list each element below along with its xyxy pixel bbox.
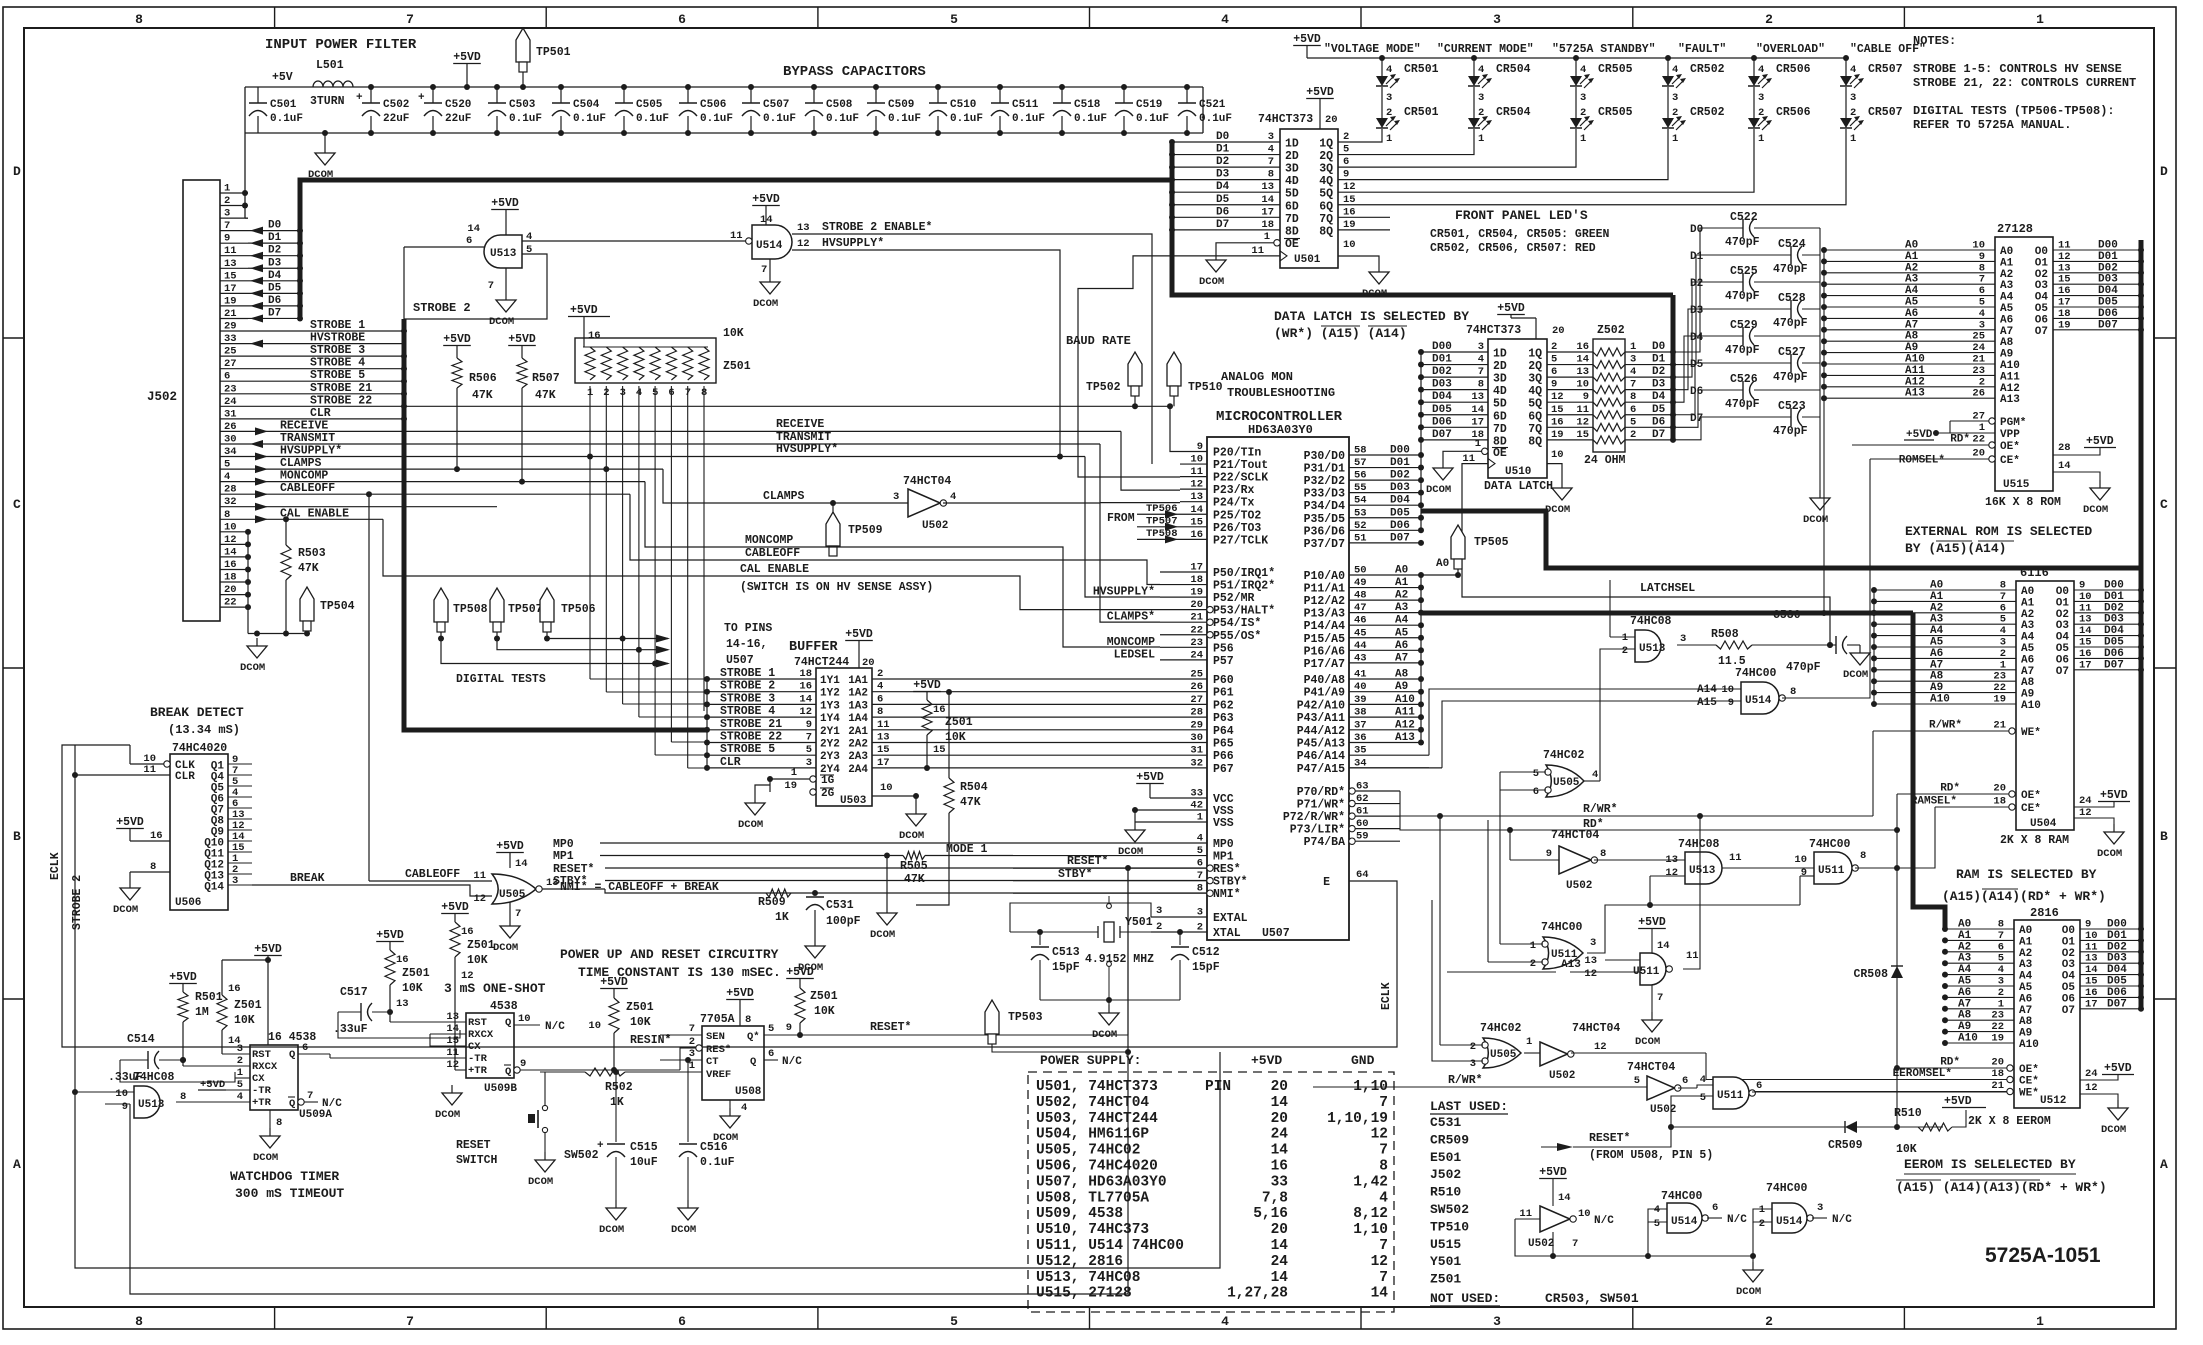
svg-text:33: 33 bbox=[1190, 788, 1203, 800]
svg-text:24: 24 bbox=[2085, 1068, 2098, 1080]
LED CR505 bbox=[1573, 55, 1579, 61]
svg-text:19: 19 bbox=[1551, 429, 1564, 441]
svg-text:1,10: 1,10 bbox=[1353, 1079, 1388, 1095]
testpoint TP504 bbox=[300, 587, 314, 621]
svg-text:A: A bbox=[2160, 1157, 2168, 1172]
svg-text:D07: D07 bbox=[1390, 532, 1410, 544]
svg-text:14: 14 bbox=[1471, 404, 1484, 416]
svg-text:Z501: Z501 bbox=[723, 360, 751, 373]
svg-text:64: 64 bbox=[1356, 869, 1369, 881]
svg-text:17: 17 bbox=[2058, 297, 2071, 309]
svg-text:CR507: CR507 bbox=[1868, 63, 1903, 76]
svg-text:20: 20 bbox=[1972, 448, 1985, 460]
svg-text:74HC00: 74HC00 bbox=[1661, 1190, 1703, 1203]
svg-text:N/C: N/C bbox=[1832, 1214, 1852, 1226]
svg-text:P46/A14: P46/A14 bbox=[1297, 750, 1345, 763]
capacitor C521 bbox=[1186, 87, 1188, 103]
wire Z501 pin drop bbox=[654, 386, 656, 755]
svg-text:7: 7 bbox=[307, 1090, 313, 1102]
wire TRANSMIT to P24 bbox=[1100, 444, 1180, 503]
svg-text:+5VD: +5VD bbox=[845, 628, 873, 641]
svg-text:U511: U511 bbox=[1818, 865, 1845, 877]
wire ROM address column bbox=[1823, 250, 1825, 613]
svg-text:13: 13 bbox=[2085, 953, 2098, 965]
svg-text:U515: U515 bbox=[1430, 1237, 1461, 1252]
svg-text:(FROM U508, PIN 5): (FROM U508, PIN 5) bbox=[1589, 1149, 1713, 1162]
svg-text:C518: C518 bbox=[1074, 99, 1101, 111]
svg-text:6: 6 bbox=[877, 693, 883, 705]
svg-text:3: 3 bbox=[1979, 319, 1985, 331]
ground DCOM U503 G bbox=[754, 795, 756, 803]
svg-text:8: 8 bbox=[745, 1014, 751, 1026]
svg-text:10K: 10K bbox=[467, 954, 488, 967]
svg-text:0.1uF: 0.1uF bbox=[270, 113, 303, 125]
svg-text:D07: D07 bbox=[2104, 659, 2124, 671]
svg-text:1: 1 bbox=[1530, 940, 1536, 952]
svg-text:R510: R510 bbox=[1894, 1107, 1922, 1120]
svg-text:C521: C521 bbox=[1199, 99, 1226, 111]
svg-text:2D: 2D bbox=[1285, 150, 1299, 163]
U504 pin 22 A9 bbox=[1874, 692, 2016, 694]
U515 pin 9 A1 bbox=[1824, 260, 1995, 262]
svg-text:+5VD: +5VD bbox=[600, 976, 628, 989]
svg-text:74HCT04: 74HCT04 bbox=[1572, 1022, 1620, 1035]
svg-text:19: 19 bbox=[2058, 319, 2071, 331]
svg-text:VREF: VREF bbox=[706, 1069, 731, 1081]
U506 pin 10 CLK bbox=[164, 761, 170, 767]
svg-text:-TR: -TR bbox=[252, 1085, 272, 1097]
svg-text:6D: 6D bbox=[1285, 200, 1299, 213]
resistor R509 bbox=[766, 889, 791, 897]
svg-text:A9: A9 bbox=[1958, 1021, 1971, 1033]
svg-text:CLR: CLR bbox=[175, 771, 195, 783]
svg-text:D01: D01 bbox=[2104, 591, 2124, 603]
svg-text:7Q: 7Q bbox=[1319, 213, 1333, 226]
svg-text:ECLK: ECLK bbox=[1380, 982, 1393, 1010]
svg-text:(A15) (A14)(A13)(RD* + WR*): (A15) (A14)(A13)(RD* + WR*) bbox=[1896, 1180, 2107, 1195]
wire HVSTROBE run bbox=[248, 343, 404, 345]
svg-text:U507, HD63A03Y0: U507, HD63A03Y0 bbox=[1036, 1174, 1167, 1190]
svg-text:CT: CT bbox=[706, 1056, 719, 1068]
U515 pin 25 A8 bbox=[1824, 340, 1995, 342]
svg-text:A3: A3 bbox=[2019, 959, 2033, 971]
svg-text:2: 2 bbox=[237, 1055, 243, 1067]
svg-text:10: 10 bbox=[1576, 379, 1589, 391]
svg-text:Q*: Q* bbox=[747, 1031, 760, 1043]
LED CR507 bbox=[1843, 55, 1849, 61]
svg-text:P47/A15: P47/A15 bbox=[1297, 763, 1345, 776]
svg-text:0.1uF: 0.1uF bbox=[763, 113, 796, 125]
svg-text:RST: RST bbox=[468, 1017, 487, 1029]
svg-text:23: 23 bbox=[1991, 1010, 2004, 1022]
svg-text:4: 4 bbox=[741, 1102, 747, 1114]
svg-text:16: 16 bbox=[1343, 206, 1356, 218]
svg-text:A6: A6 bbox=[1905, 308, 1918, 320]
svg-text:+5VD: +5VD bbox=[254, 943, 282, 956]
svg-text:C510: C510 bbox=[950, 99, 976, 111]
svg-text:16: 16 bbox=[396, 954, 409, 966]
svg-text:12: 12 bbox=[1584, 968, 1597, 980]
svg-text:5: 5 bbox=[1634, 1075, 1640, 1087]
svg-text:14: 14 bbox=[467, 223, 480, 235]
wire U508 sen line bbox=[659, 1034, 661, 1036]
svg-text:10uF: 10uF bbox=[630, 1156, 658, 1169]
svg-text:10: 10 bbox=[1190, 454, 1203, 466]
svg-text:OE*: OE* bbox=[2019, 1064, 2039, 1076]
svg-text:4: 4 bbox=[1758, 64, 1764, 76]
wire D7 bbox=[248, 317, 300, 319]
wire D1 bbox=[248, 242, 300, 244]
svg-text:0.1uF: 0.1uF bbox=[573, 113, 606, 125]
svg-text:U505: U505 bbox=[1553, 777, 1580, 789]
svg-text:C502: C502 bbox=[383, 99, 409, 111]
svg-text:C531: C531 bbox=[1430, 1115, 1461, 1130]
svg-text:A7: A7 bbox=[2000, 326, 2013, 338]
svg-text:O5: O5 bbox=[2056, 643, 2070, 655]
svg-text:A0: A0 bbox=[2000, 246, 2013, 258]
svg-text:4: 4 bbox=[950, 491, 956, 503]
svg-text:20: 20 bbox=[1552, 325, 1565, 337]
svg-text:CR502, CR506, CR507: RED: CR502, CR506, CR507: RED bbox=[1430, 242, 1596, 255]
svg-text:A13: A13 bbox=[1395, 732, 1415, 744]
svg-text:CR506: CR506 bbox=[1776, 106, 1811, 119]
svg-text:RAMSEL*: RAMSEL* bbox=[1911, 796, 1957, 808]
svg-text:D02: D02 bbox=[1390, 470, 1410, 482]
svg-text:12: 12 bbox=[797, 238, 810, 250]
U512 pin 6 A2 bbox=[1945, 951, 2014, 953]
J502 pin 22 bbox=[220, 606, 248, 608]
svg-text:3: 3 bbox=[1630, 354, 1636, 366]
svg-text:STROBE 2: STROBE 2 bbox=[720, 680, 775, 693]
capacitor C511 bbox=[999, 87, 1001, 103]
U503 row STROBE 5 bbox=[707, 754, 816, 756]
svg-text:5D: 5D bbox=[1285, 188, 1299, 201]
counter U506 74HC4020 bbox=[170, 754, 228, 910]
svg-text:63: 63 bbox=[1356, 781, 1369, 793]
svg-text:3: 3 bbox=[1156, 905, 1162, 917]
svg-text:47K: 47K bbox=[535, 389, 556, 402]
U507 pin 50 P10/A0 wire A0 bbox=[1349, 574, 1421, 576]
wire TP506 arrow bbox=[1137, 513, 1180, 515]
svg-text:P15/A5: P15/A5 bbox=[1304, 633, 1346, 646]
svg-text:3: 3 bbox=[2000, 637, 2006, 649]
svg-text:6: 6 bbox=[1712, 1202, 1718, 1214]
svg-text:7: 7 bbox=[1379, 1270, 1388, 1286]
svg-text:18: 18 bbox=[1261, 219, 1274, 231]
J502 pin 17 bbox=[220, 292, 248, 294]
svg-text:A0: A0 bbox=[1958, 919, 1971, 931]
svg-text:11: 11 bbox=[1251, 245, 1264, 257]
svg-text:A0: A0 bbox=[1395, 565, 1408, 577]
svg-text:O6: O6 bbox=[2035, 314, 2048, 326]
U507 pin 18 P51/IRQ2* bbox=[1160, 584, 1207, 586]
svg-text:P62: P62 bbox=[1213, 699, 1234, 712]
svg-text:TP504: TP504 bbox=[320, 600, 355, 613]
svg-text:P42/A10: P42/A10 bbox=[1297, 699, 1345, 712]
wire STROBE 3 run bbox=[248, 355, 404, 357]
U515 pin 6 A4 bbox=[1824, 295, 1995, 297]
svg-text:P70/RD*: P70/RD* bbox=[1297, 786, 1345, 799]
J502 pin 16 bbox=[220, 569, 248, 571]
svg-text:CR505: CR505 bbox=[1598, 63, 1633, 76]
svg-text:DCOM: DCOM bbox=[253, 1152, 278, 1164]
svg-text:9: 9 bbox=[2079, 580, 2085, 592]
svg-text:CE*: CE* bbox=[2019, 1076, 2039, 1088]
svg-text:12: 12 bbox=[2058, 251, 2071, 263]
svg-text:C504: C504 bbox=[573, 99, 600, 111]
svg-text:R509: R509 bbox=[758, 896, 786, 909]
svg-text:CABLEOFF: CABLEOFF bbox=[280, 482, 335, 495]
svg-text:A0: A0 bbox=[2019, 925, 2032, 937]
svg-text:Z501: Z501 bbox=[402, 967, 430, 980]
U512 pin 15 O5 wire D05 bbox=[2080, 985, 2141, 987]
U512 pin 1 A7 bbox=[1945, 1008, 2014, 1010]
ground DCOM U515 bbox=[2099, 480, 2101, 488]
U510 pin 12 5Q wire to Z502 bbox=[1547, 401, 1593, 403]
U504 pin 2 A6 bbox=[1874, 657, 2016, 659]
svg-text:U504, HM6116P: U504, HM6116P bbox=[1036, 1127, 1149, 1143]
wire D1 riser bbox=[1673, 255, 1705, 365]
svg-text:A9: A9 bbox=[2000, 349, 2013, 361]
U507 pin 48 P12/A2 wire A2 bbox=[1349, 599, 1421, 601]
capacitor C506 bbox=[687, 87, 689, 103]
U504 pin 23 A8 bbox=[1874, 680, 2016, 682]
U515 pin 10 A0 bbox=[1824, 249, 1995, 251]
U507 pin 53 P35/D5 wire D05 bbox=[1349, 517, 1421, 519]
wire RECEIVE to P23 bbox=[1121, 431, 1180, 490]
svg-text:16: 16 bbox=[1576, 341, 1589, 353]
latch U510 74HCT373 bbox=[1488, 339, 1547, 478]
svg-text:A0: A0 bbox=[1436, 558, 1449, 570]
svg-text:D04: D04 bbox=[1390, 495, 1410, 507]
svg-text:CR506: CR506 bbox=[1776, 63, 1811, 76]
svg-text:C517: C517 bbox=[340, 986, 368, 999]
ground DCOM U503 pin10 bbox=[915, 806, 917, 814]
LED CR504 bbox=[1471, 55, 1477, 61]
svg-text:R507: R507 bbox=[532, 372, 560, 385]
svg-text:3: 3 bbox=[1470, 1058, 1476, 1070]
svg-text:C507: C507 bbox=[763, 99, 789, 111]
wire U513 pin4 to U514 pin11 bbox=[522, 240, 752, 242]
svg-text:1K: 1K bbox=[775, 911, 789, 924]
J502 pin 26 bbox=[220, 430, 248, 432]
svg-text:20: 20 bbox=[1271, 1079, 1288, 1095]
svg-text:A6: A6 bbox=[1958, 987, 1971, 999]
ground DCOM U508 bbox=[729, 1108, 731, 1116]
svg-text:5: 5 bbox=[237, 1079, 243, 1091]
svg-text:19: 19 bbox=[1991, 1033, 2004, 1045]
U507 pin 56 P32/D2 wire D02 bbox=[1349, 479, 1421, 481]
U515 pin 5 A5 bbox=[1824, 306, 1995, 308]
svg-text:MP1: MP1 bbox=[1213, 851, 1234, 864]
svg-text:A1: A1 bbox=[1930, 591, 1944, 603]
svg-text:+: + bbox=[597, 1140, 604, 1152]
svg-text:C501: C501 bbox=[270, 99, 297, 111]
svg-text:A9: A9 bbox=[2021, 689, 2034, 701]
svg-text:MP0: MP0 bbox=[1213, 838, 1234, 851]
svg-text:3: 3 bbox=[1817, 1202, 1823, 1214]
svg-text:TP503: TP503 bbox=[1008, 1011, 1043, 1024]
svg-text:C527: C527 bbox=[1778, 346, 1806, 359]
svg-text:P40/A8: P40/A8 bbox=[1304, 674, 1346, 687]
diode CR508 bbox=[1896, 794, 1898, 1127]
svg-text:10K: 10K bbox=[723, 327, 744, 340]
svg-text:P74/BA: P74/BA bbox=[1304, 836, 1346, 849]
svg-text:(WR*) (A15) (A14): (WR*) (A15) (A14) bbox=[1274, 326, 1407, 341]
svg-text:R510: R510 bbox=[1430, 1185, 1461, 1200]
resistor R503 bbox=[285, 519, 287, 545]
svg-text:A5: A5 bbox=[1930, 637, 1944, 649]
svg-text:A1: A1 bbox=[1905, 251, 1919, 263]
Z502 resistor 7 bbox=[1593, 423, 1625, 431]
Z502 resistor 4 bbox=[1593, 386, 1625, 394]
svg-text:27128: 27128 bbox=[1997, 222, 2033, 236]
wire D4 bbox=[248, 280, 300, 282]
svg-text:TP507: TP507 bbox=[508, 603, 543, 616]
svg-text:7: 7 bbox=[1379, 1238, 1388, 1254]
svg-text:P26/TO3: P26/TO3 bbox=[1213, 522, 1261, 535]
svg-text:15: 15 bbox=[224, 270, 237, 282]
svg-text:22uF: 22uF bbox=[445, 113, 471, 125]
svg-text:D4: D4 bbox=[1652, 391, 1666, 403]
svg-text:16: 16 bbox=[2085, 987, 2098, 999]
svg-text:10: 10 bbox=[2085, 930, 2098, 942]
svg-text:22: 22 bbox=[1190, 624, 1203, 636]
J502 pin 31 bbox=[220, 418, 248, 420]
svg-text:12: 12 bbox=[2079, 807, 2092, 819]
svg-text:P34/D4: P34/D4 bbox=[1304, 500, 1346, 513]
wire STROBE 5 run bbox=[248, 380, 404, 382]
J502 pin 1 bbox=[220, 192, 248, 194]
svg-text:+5VD: +5VD bbox=[913, 679, 941, 692]
svg-text:12: 12 bbox=[224, 534, 237, 546]
svg-text:50: 50 bbox=[1354, 565, 1367, 577]
svg-text:0.1uF: 0.1uF bbox=[1136, 113, 1169, 125]
U512 pin 14 O4 wire D04 bbox=[2080, 974, 2141, 976]
svg-text:Z501: Z501 bbox=[810, 990, 838, 1003]
svg-text:TO PINS: TO PINS bbox=[724, 622, 772, 635]
svg-text:A10: A10 bbox=[2019, 1039, 2039, 1051]
svg-text:11: 11 bbox=[2058, 240, 2071, 252]
svg-text:DCOM: DCOM bbox=[1736, 1286, 1761, 1298]
U504 pin 19 A10 bbox=[1874, 703, 2016, 705]
svg-text:A4: A4 bbox=[1958, 964, 1972, 976]
svg-text:RXCX: RXCX bbox=[468, 1029, 494, 1041]
wire STROBE 22 run bbox=[248, 405, 404, 407]
U501 pin 8 4D bbox=[1172, 179, 1280, 181]
U515 pin 19 O7 wire D07 bbox=[2053, 329, 2141, 331]
svg-text:(13.34 mS): (13.34 mS) bbox=[168, 723, 240, 737]
svg-text:A8: A8 bbox=[1905, 331, 1919, 343]
svg-text:17: 17 bbox=[224, 283, 237, 295]
svg-text:P10/A0: P10/A0 bbox=[1304, 570, 1346, 583]
svg-text:A8: A8 bbox=[2000, 337, 2014, 349]
svg-text:10: 10 bbox=[1972, 240, 1985, 252]
U515 pin 13 O2 wire D02 bbox=[2053, 272, 2141, 274]
svg-text:22: 22 bbox=[1991, 1021, 2004, 1033]
wire STROBE 1 run bbox=[248, 330, 404, 332]
U507 pin 1 VSS bbox=[1135, 821, 1207, 823]
svg-text:5,16: 5,16 bbox=[1253, 1206, 1288, 1222]
U510 pin 5 2Q wire to Z502 bbox=[1547, 364, 1593, 366]
svg-text:2: 2 bbox=[1530, 958, 1536, 970]
svg-text:10: 10 bbox=[1343, 239, 1356, 251]
svg-text:P56: P56 bbox=[1213, 642, 1234, 655]
svg-text:12: 12 bbox=[2085, 1082, 2098, 1094]
svg-text:470pF: 470pF bbox=[1725, 398, 1760, 411]
svg-text:C524: C524 bbox=[1778, 238, 1806, 251]
svg-text:P65: P65 bbox=[1213, 738, 1234, 751]
svg-text:12: 12 bbox=[446, 1059, 459, 1071]
ground DCOM U504 bbox=[2113, 824, 2115, 832]
svg-text:D7: D7 bbox=[1652, 429, 1665, 441]
svg-text:U512: U512 bbox=[2040, 1095, 2066, 1107]
svg-text:6: 6 bbox=[1533, 786, 1539, 798]
svg-text:U511: U511 bbox=[1717, 1090, 1744, 1102]
svg-text:O7: O7 bbox=[2056, 666, 2069, 678]
svg-text:8: 8 bbox=[135, 1314, 143, 1329]
svg-text:2: 2 bbox=[689, 1036, 695, 1048]
resistor network Z501 top bbox=[575, 338, 716, 383]
svg-text:3: 3 bbox=[893, 491, 899, 503]
svg-text:D05: D05 bbox=[2104, 637, 2124, 649]
svg-text:PIN: PIN bbox=[1205, 1079, 1231, 1095]
J502 pin 30 bbox=[220, 443, 248, 445]
svg-text:P20/TIn: P20/TIn bbox=[1213, 447, 1261, 460]
svg-text:CABLEOFF: CABLEOFF bbox=[405, 868, 460, 881]
U507 pin 54 P34/D4 wire D04 bbox=[1349, 504, 1421, 506]
svg-text:A11: A11 bbox=[2000, 371, 2020, 383]
J502 pin 11 bbox=[220, 255, 248, 257]
svg-text:74HC02: 74HC02 bbox=[1480, 1022, 1522, 1035]
wire Z501 pin drop bbox=[670, 386, 672, 742]
svg-text:0.1uF: 0.1uF bbox=[1074, 113, 1107, 125]
Z502 resistor 1 bbox=[1593, 348, 1625, 356]
svg-text:25: 25 bbox=[1972, 331, 1985, 343]
svg-text:SW502: SW502 bbox=[564, 1149, 599, 1162]
svg-text:D02: D02 bbox=[2107, 941, 2127, 953]
svg-text:P16/A6: P16/A6 bbox=[1304, 645, 1346, 658]
U515 pin 2 A12 bbox=[1824, 386, 1995, 388]
svg-text:4: 4 bbox=[1580, 64, 1586, 76]
svg-text:7: 7 bbox=[1379, 1095, 1388, 1111]
svg-text:TP510: TP510 bbox=[1430, 1219, 1469, 1234]
svg-text:1A1: 1A1 bbox=[848, 675, 868, 687]
U503 row STROBE 3 bbox=[707, 703, 816, 705]
svg-text:51: 51 bbox=[1354, 532, 1367, 544]
svg-text:L501: L501 bbox=[316, 59, 344, 72]
svg-text:WATCHDOG TIMER: WATCHDOG TIMER bbox=[230, 1169, 339, 1184]
svg-text:1: 1 bbox=[1264, 231, 1270, 243]
svg-text:CX: CX bbox=[468, 1041, 481, 1053]
svg-text:22: 22 bbox=[1993, 682, 2006, 694]
svg-text:1,42: 1,42 bbox=[1353, 1174, 1388, 1190]
ground DCOM C515 bbox=[615, 1200, 617, 1208]
svg-text:10: 10 bbox=[880, 782, 893, 794]
svg-text:5: 5 bbox=[806, 744, 812, 756]
wire crystal to EXTAL bbox=[1010, 903, 1151, 932]
J502 pin 21 bbox=[220, 318, 248, 320]
svg-text:P53/HALT*: P53/HALT* bbox=[1213, 605, 1275, 618]
svg-text:P36/D6: P36/D6 bbox=[1304, 525, 1346, 538]
svg-text:47: 47 bbox=[1354, 602, 1367, 614]
svg-text:4: 4 bbox=[1478, 64, 1484, 76]
svg-text:+5VD: +5VD bbox=[1136, 771, 1164, 784]
svg-text:C530: C530 bbox=[1773, 609, 1801, 622]
svg-text:P55/OS*: P55/OS* bbox=[1213, 630, 1261, 643]
svg-text:4: 4 bbox=[1700, 1074, 1706, 1086]
svg-text:4: 4 bbox=[1379, 1190, 1388, 1206]
